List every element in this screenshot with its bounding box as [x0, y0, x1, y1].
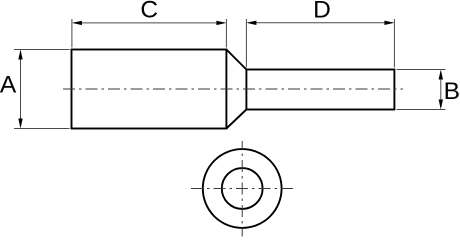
dimension D line [249, 22, 393, 24]
taper bottom edge [226, 110, 246, 129]
dimension A line [20, 52, 22, 126]
dimension B extension line top [397, 69, 446, 71]
dimension D arrow left [246, 21, 256, 25]
end view outer circle [203, 149, 282, 228]
dimension A arrow down [18, 119, 22, 129]
dimension B arrow down [439, 100, 443, 110]
barrel outline [72, 50, 227, 129]
dimension A extension line top [14, 49, 70, 51]
dimension B line [440, 72, 442, 107]
dimension D extension line right [393, 19, 395, 68]
svg-text:C: C [140, 0, 158, 23]
end view horizontal centerline [188, 188, 295, 190]
dimension C extension line left [71, 19, 73, 48]
dimension C line [74, 22, 224, 24]
dimension D arrow right [384, 21, 394, 25]
taper top edge [226, 50, 246, 70]
dimension A extension line bottom [14, 128, 70, 130]
svg-text:B: B [444, 78, 460, 105]
end view vertical centerline [241, 141, 243, 237]
dimension A arrow up [18, 50, 22, 60]
dimension C extension line right [225, 19, 227, 48]
svg-text:D: D [313, 0, 331, 23]
dimension C arrow right [216, 21, 226, 25]
dimension B arrow up [439, 70, 443, 80]
dimension C arrow left [72, 21, 82, 25]
dimension D extension line left [245, 19, 247, 68]
dimension B extension line bottom [397, 109, 446, 111]
centerline side view [63, 88, 403, 90]
pin outline [246, 70, 394, 110]
svg-text:A: A [0, 72, 17, 99]
end view inner circle [222, 168, 263, 209]
